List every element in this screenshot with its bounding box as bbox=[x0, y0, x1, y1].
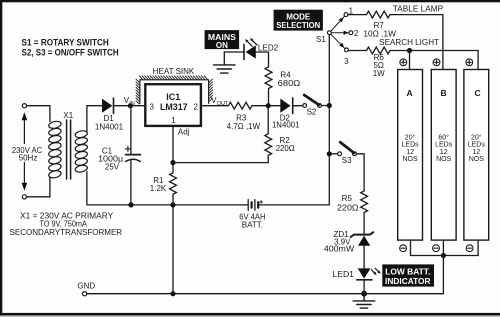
wire S1 pole down battery rail bbox=[259, 35, 330, 205]
label box MODE SELECTION bbox=[274, 10, 323, 31]
node S3 junction bbox=[327, 151, 332, 156]
wire D2 to S2 bbox=[293, 105, 303, 107]
svg-text:Adj: Adj bbox=[178, 127, 190, 136]
S1 position 2 contact bbox=[349, 31, 353, 35]
resistor R6 bbox=[367, 47, 391, 54]
wire S1 pos3 to R6 bbox=[348, 50, 366, 52]
svg-text:ON: ON bbox=[216, 41, 228, 50]
wire bank A bottom to bus bbox=[410, 240, 412, 255]
svg-text:HEAT SINK: HEAT SINK bbox=[153, 67, 195, 76]
bank B plus terminal bbox=[433, 59, 440, 66]
wire ZD1 to LED1 bbox=[363, 246, 365, 269]
svg-text:60°: 60° bbox=[438, 133, 449, 141]
LED1 bbox=[357, 268, 381, 280]
svg-text:1N4001: 1N4001 bbox=[272, 120, 300, 129]
wire IC1 pin1 Adj down bbox=[172, 126, 174, 163]
label box LOW BATT. INDICATOR bbox=[382, 264, 434, 286]
bank A plus terminal bbox=[400, 59, 407, 66]
svg-text:LM317: LM317 bbox=[160, 102, 188, 112]
svg-text:INDICATOR: INDICATOR bbox=[385, 277, 431, 286]
svg-text:220Ω: 220Ω bbox=[276, 144, 295, 153]
svg-text:NOS: NOS bbox=[403, 156, 419, 163]
label IC1 LM317 bbox=[149, 92, 198, 125]
wire LED2 cathode to ground bbox=[224, 52, 244, 65]
label R2 220ohm bbox=[276, 136, 295, 153]
svg-text:12: 12 bbox=[440, 149, 448, 156]
label R6 5ohm 1W bbox=[373, 53, 385, 78]
resistor R3 bbox=[228, 102, 268, 109]
label D2 1N4001 bbox=[272, 113, 300, 129]
wire junction to bank A bbox=[409, 51, 411, 70]
svg-text:12: 12 bbox=[472, 149, 480, 156]
svg-text:C: C bbox=[475, 88, 481, 98]
LED2 bbox=[244, 38, 257, 59]
svg-text:2: 2 bbox=[193, 102, 198, 111]
svg-text:1: 1 bbox=[171, 116, 176, 125]
svg-text:NOS: NOS bbox=[469, 156, 485, 163]
node bus junction bbox=[441, 253, 446, 258]
wire S1 pos1 to R7 bbox=[348, 14, 367, 16]
transformer X1 secondary winding bbox=[75, 130, 88, 173]
label notes S1 S2 S3 bbox=[22, 38, 119, 58]
resistor R1 1.2K bbox=[170, 163, 177, 205]
LED bank A box bbox=[398, 70, 423, 241]
resistor R2 220ohm bbox=[173, 106, 272, 163]
wire R7 to bank B bbox=[390, 15, 443, 70]
svg-text:220Ω: 220Ω bbox=[337, 203, 359, 212]
svg-text:MODE: MODE bbox=[286, 12, 311, 21]
label bank B text bbox=[435, 133, 453, 163]
svg-text:S3: S3 bbox=[342, 156, 352, 165]
wire battery rail to S3 bbox=[329, 153, 337, 155]
label VOUT bbox=[211, 96, 229, 107]
wire bus to GND rail bbox=[442, 256, 444, 294]
svg-text:1N4001: 1N4001 bbox=[95, 123, 124, 132]
S1 blade to position 2 bbox=[331, 31, 348, 35]
svg-text:LEDs: LEDs bbox=[402, 142, 420, 149]
wire GND rail bbox=[87, 293, 444, 295]
battery 6V 4AH bbox=[248, 200, 262, 211]
svg-text:LEDs: LEDs bbox=[468, 142, 486, 149]
terminal AC neutral bbox=[22, 195, 26, 199]
wire IC1 pin2 to R3 bbox=[201, 105, 229, 107]
svg-text:TABLE LAMP: TABLE LAMP bbox=[393, 5, 443, 14]
label VIN bbox=[124, 96, 135, 107]
voltage arrow 230V AC bbox=[22, 112, 28, 190]
svg-text:S1 = ROTARY SWITCH: S1 = ROTARY SWITCH bbox=[22, 38, 109, 48]
svg-text:A: A bbox=[407, 88, 413, 98]
svg-text:R5: R5 bbox=[342, 194, 353, 203]
svg-text:12: 12 bbox=[406, 149, 414, 156]
svg-text:S1: S1 bbox=[316, 35, 326, 44]
rotary switch S1 pole bbox=[328, 31, 332, 35]
label 230V AC 50Hz bbox=[12, 146, 43, 163]
bank B minus terminal bbox=[433, 245, 440, 252]
svg-text:IC1: IC1 bbox=[166, 92, 180, 102]
wire R6 to bank C bbox=[390, 51, 478, 70]
wire LED1 to GND rail bbox=[363, 280, 365, 294]
S1 position 1 contact bbox=[344, 13, 348, 17]
S1 blade to position 1 bbox=[331, 16, 345, 31]
node search light junction bbox=[407, 48, 412, 53]
wire C1 to 0V rail bbox=[130, 160, 132, 205]
node LED1 GND junction bbox=[361, 291, 367, 297]
node GND rail junction bbox=[170, 291, 175, 296]
svg-text:NOS: NOS bbox=[436, 156, 452, 163]
diode D2 1N4001 bbox=[280, 98, 292, 114]
label 6V 4AH BATT. bbox=[239, 213, 265, 230]
svg-text:S2, S3 = ON/OFF SWITCH: S2, S3 = ON/OFF SWITCH bbox=[22, 48, 119, 58]
label C1 1000u 25V bbox=[98, 147, 123, 172]
LED bank C box bbox=[464, 70, 489, 241]
label ZD1 3.9V 400mW bbox=[324, 230, 355, 253]
S1 blade to position 3 bbox=[331, 34, 345, 48]
svg-text:IN: IN bbox=[129, 101, 135, 107]
terminal AC live bbox=[22, 104, 26, 108]
diode D1 1N4001 bbox=[102, 98, 114, 113]
svg-text:1W: 1W bbox=[373, 69, 385, 78]
transformer X1 core bbox=[67, 120, 71, 179]
zener diode ZD1 3.9V bbox=[351, 232, 374, 246]
svg-text:20°: 20° bbox=[471, 133, 482, 141]
switch S2 bbox=[303, 95, 322, 107]
svg-text:X1: X1 bbox=[63, 111, 73, 120]
wire AC live to primary bbox=[27, 106, 50, 122]
resistor R7 bbox=[367, 11, 391, 18]
wire LED2 anode to R4 bbox=[256, 52, 269, 67]
svg-text:SEARCH LIGHT: SEARCH LIGHT bbox=[379, 38, 439, 47]
wire bank C bottom to bus bbox=[477, 240, 479, 255]
svg-text:4.7Ω ,1W: 4.7Ω ,1W bbox=[227, 122, 261, 131]
transformer X1 primary winding bbox=[48, 120, 62, 179]
LED bank B box bbox=[431, 70, 456, 241]
svg-text:OUT: OUT bbox=[217, 101, 229, 107]
svg-text:400mW: 400mW bbox=[324, 245, 355, 254]
wire S3 to R5 bbox=[356, 154, 364, 191]
label A B C bbox=[407, 88, 481, 98]
wire secondary bottom to 0V rail bbox=[87, 172, 248, 205]
svg-text:LEDs: LEDs bbox=[435, 142, 453, 149]
svg-text:LED1: LED1 bbox=[332, 270, 354, 279]
svg-text:R3: R3 bbox=[236, 113, 247, 122]
svg-text:LOW BATT.: LOW BATT. bbox=[385, 268, 430, 277]
node R1 bottom junction bbox=[170, 202, 175, 207]
svg-text:20°: 20° bbox=[405, 133, 416, 141]
ground symbol bottom bbox=[353, 294, 375, 308]
wire S2 to battery rail bbox=[321, 105, 329, 107]
svg-text:S2: S2 bbox=[307, 108, 317, 117]
label R1 1.2K bbox=[150, 176, 167, 193]
svg-text:LED2: LED2 bbox=[258, 43, 279, 52]
label R4 680ohm bbox=[278, 70, 301, 88]
svg-text:25V: 25V bbox=[105, 163, 120, 172]
S1 position 3 contact bbox=[345, 48, 349, 52]
node S2 junction bbox=[327, 103, 332, 108]
label D1 1N4001 bbox=[95, 114, 124, 131]
label transformer note bbox=[10, 211, 123, 237]
resistor R5 220ohm bbox=[361, 191, 368, 235]
label bank A text bbox=[402, 133, 420, 163]
node Adj junction bbox=[170, 160, 175, 165]
svg-text:3: 3 bbox=[149, 102, 154, 111]
svg-text:BATT.: BATT. bbox=[242, 220, 263, 229]
label R7 10ohm 1W bbox=[363, 21, 396, 38]
resistor R4 680ohm bbox=[265, 67, 272, 106]
wire VIN to C1 bbox=[130, 106, 132, 154]
bank C minus terminal bbox=[466, 245, 473, 252]
svg-text:680Ω: 680Ω bbox=[278, 79, 301, 88]
svg-text:SECONDARYTRANSFORMER: SECONDARYTRANSFORMER bbox=[10, 228, 123, 237]
wire R1 junction to GND rail bbox=[172, 205, 174, 294]
svg-text:2: 2 bbox=[354, 29, 359, 38]
svg-text:R4: R4 bbox=[280, 70, 291, 79]
svg-text:GND: GND bbox=[77, 281, 95, 290]
svg-text:1.2K: 1.2K bbox=[150, 184, 167, 193]
capacitor C1 bbox=[125, 146, 140, 161]
wire D1 to IC1 pin3 bbox=[114, 105, 146, 107]
wire secondary top to D1 bbox=[87, 106, 102, 132]
bank C plus terminal bbox=[466, 59, 473, 66]
wire minus bus bbox=[411, 255, 479, 257]
node VIN bbox=[128, 103, 133, 108]
label R5 220ohm bbox=[337, 194, 359, 212]
svg-text:50Hz: 50Hz bbox=[19, 154, 38, 163]
wire bank B bottom to bus bbox=[442, 240, 444, 255]
wire AC neutral to primary bbox=[27, 178, 50, 197]
wire junction to D2 bbox=[268, 105, 280, 107]
heat sink hatching bbox=[136, 76, 213, 104]
label bank C text bbox=[468, 133, 486, 163]
label R3 4.7ohm 1W bbox=[227, 113, 261, 131]
svg-text:3: 3 bbox=[344, 57, 349, 66]
node C1/0V junction bbox=[128, 202, 133, 207]
switch S3 bbox=[338, 142, 357, 156]
svg-text:SELECTION: SELECTION bbox=[276, 21, 320, 30]
node R3/R4/D2 junction bbox=[266, 103, 271, 108]
bank A minus terminal bbox=[400, 245, 407, 252]
svg-text:B: B bbox=[441, 88, 447, 98]
label box MAINS ON bbox=[205, 30, 240, 50]
terminal GND bbox=[83, 292, 87, 296]
op-amp regulator IC1 LM317 box bbox=[145, 84, 201, 126]
ground under MAINS ON bbox=[214, 65, 235, 73]
